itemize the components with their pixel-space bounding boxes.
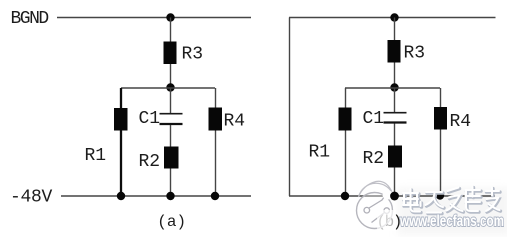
wire BGND top rail (a)	[57, 17, 251, 19]
watermark logo circle	[357, 181, 394, 228]
svg-text:R3: R3	[182, 45, 204, 65]
wire R4 branch (a)	[215, 88, 217, 196]
wire R3 top lead (a)	[170, 18, 172, 43]
junction top node (a)	[166, 13, 174, 21]
capacitor C1 (b)	[384, 113, 407, 123]
resistor R4 (b)	[434, 107, 447, 130]
resistor R4 (a)	[209, 108, 223, 131]
resistor R3 (a)	[164, 42, 177, 65]
watermark logo swoosh	[359, 181, 394, 197]
wire left return (b)	[289, 18, 291, 197]
wire bottom rail (b)	[289, 195, 495, 197]
watermark logo node right	[384, 208, 390, 214]
wire C1 to R2 (b)	[394, 124, 396, 147]
wire R3 top lead (b)	[394, 18, 396, 42]
junction R4 bottom (a)	[211, 192, 219, 200]
svg-text:(a): (a)	[157, 213, 186, 231]
watermark veil over (b) caption	[377, 210, 396, 231]
resistor R1 (a)	[114, 108, 128, 131]
wire C1 top lead (a)	[170, 88, 172, 113]
wire C1 to R2 (a)	[170, 125, 172, 147]
svg-text:www.elecfans.com: www.elecfans.com	[399, 213, 504, 230]
wire mid rail (a)	[121, 87, 215, 89]
watermark logo trace lower	[372, 213, 385, 223]
junction top node (b)	[390, 13, 398, 21]
wire R1 branch (a)	[120, 88, 122, 196]
svg-text:R2: R2	[139, 152, 161, 172]
svg-text:C1: C1	[363, 109, 385, 129]
svg-text:R1: R1	[309, 143, 331, 163]
wire R3 bottom lead (a)	[170, 64, 172, 88]
capacitor C1 (a)	[160, 114, 183, 124]
watermark logo trace upper	[369, 194, 387, 209]
junction mid node (a)	[166, 83, 174, 91]
resistor R2 (b)	[388, 146, 402, 168]
junction R2 bottom (b)	[390, 192, 398, 200]
svg-text:R1: R1	[85, 146, 107, 166]
resistor R2 (a)	[164, 147, 179, 169]
wire R2 bottom lead (a)	[170, 169, 172, 197]
junction top of watermark (b) redraw	[390, 192, 399, 201]
svg-text:BGND: BGND	[11, 9, 49, 29]
wire R1 branch (b)	[345, 88, 347, 196]
watermark swoosh tip blob	[383, 191, 394, 200]
svg-text:C1: C1	[139, 109, 161, 129]
svg-text:-48V: -48V	[10, 188, 53, 208]
svg-text:R4: R4	[224, 112, 246, 132]
junction R2 bottom (a)	[166, 192, 174, 200]
junction R1 bottom (b)	[341, 192, 349, 200]
svg-text:R2: R2	[363, 149, 385, 169]
resistor R3 (b)	[388, 40, 401, 63]
wire R4 branch (b)	[440, 88, 442, 196]
watermark logo node left	[364, 207, 370, 213]
resistor R1 (b)	[339, 108, 352, 131]
wire mid rail (b)	[345, 87, 440, 89]
junction R1 bottom (a)	[117, 192, 125, 200]
wire -48V bottom rail (a)	[61, 195, 251, 197]
junction mid node (b)	[390, 83, 398, 91]
junction R4 bottom (b)	[436, 191, 444, 199]
wire R2 bottom lead (b)	[394, 168, 396, 197]
wire BGND top rail (b)	[289, 17, 496, 19]
wire R3 bottom lead (b)	[394, 63, 396, 89]
svg-text:R3: R3	[404, 44, 426, 64]
wire C1 top lead (b)	[394, 88, 396, 113]
watermark text dianzi fashaoyou	[403, 187, 501, 214]
svg-text:R4: R4	[450, 112, 472, 132]
